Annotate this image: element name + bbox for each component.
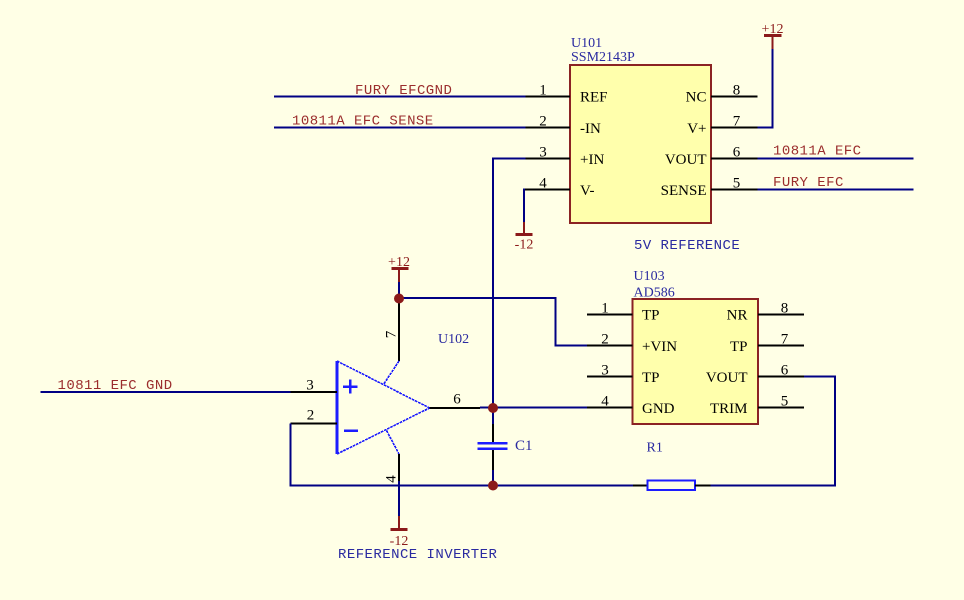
svg-text:6: 6	[733, 145, 741, 161]
wire net FURY EFCGND to U101 pin 1	[274, 96, 526, 98]
svg-text:C1: C1	[515, 438, 533, 454]
capacitor C1 bottom lead wire	[492, 470, 494, 486]
U103 pin 8 stub	[758, 314, 804, 316]
svg-text:5V REFERENCE: 5V REFERENCE	[634, 238, 740, 254]
capacitor C1 top lead wire	[492, 408, 494, 424]
svg-text:10811A EFC SENSE: 10811A EFC SENSE	[292, 114, 434, 130]
U101 pin 2 stub	[526, 127, 571, 129]
U103 body (AD586 reference)	[633, 299, 759, 424]
svg-text:4: 4	[539, 176, 547, 192]
svg-text:-12: -12	[515, 238, 534, 253]
U101 pin 7 stub	[711, 127, 758, 129]
power symbol +12 (above op-amp): bar	[392, 267, 409, 270]
op-amp U102 pin 4 lead-in segment	[387, 431, 400, 455]
svg-text:7: 7	[384, 330, 400, 338]
wire op-amp pin 4 down to -12	[398, 481, 400, 516]
svg-text:TP: TP	[730, 339, 748, 355]
svg-text:8: 8	[733, 83, 741, 99]
op-amp U102 triangle lower hypotenuse	[337, 408, 430, 454]
junction dot at +12 / op-amp pin 7	[394, 294, 404, 304]
wire U101 pin 3 to op-amp output (horizontal)	[492, 158, 526, 160]
U101 pin 3 stub	[526, 158, 571, 160]
svg-text:SENSE: SENSE	[661, 183, 707, 199]
U103 pin 5 stub	[758, 407, 804, 409]
op-amp U102 minus input marker	[344, 429, 358, 432]
svg-text:V-: V-	[580, 183, 594, 199]
U101 pin 1 stub	[526, 96, 571, 98]
wire +12 down to junction	[398, 282, 400, 298]
op-amp U102 triangle upper hypotenuse	[337, 361, 430, 408]
svg-text:8: 8	[781, 301, 789, 317]
power symbol -12 at U101 pin 4: stem	[523, 222, 525, 234]
U103 pin 4 stub	[587, 407, 633, 409]
svg-text:4: 4	[384, 475, 400, 483]
svg-text:TRIM: TRIM	[710, 401, 748, 417]
svg-text:3: 3	[306, 378, 314, 394]
power symbol +12 (top right): bar	[764, 34, 782, 37]
feedback wire from pin 2 down and right	[291, 424, 494, 486]
wire net 10811 EFC GND to op-amp pin 3	[41, 391, 291, 393]
svg-text:4: 4	[601, 394, 609, 410]
wire U101 pin 4 down to -12	[523, 189, 525, 223]
svg-text:1: 1	[601, 301, 609, 317]
svg-text:FURY EFC: FURY EFC	[773, 175, 844, 191]
svg-text:+12: +12	[388, 255, 410, 270]
power symbol -12 (below op-amp): stem	[398, 516, 400, 529]
svg-text:U103: U103	[634, 269, 665, 284]
svg-text:7: 7	[781, 332, 789, 348]
svg-text:2: 2	[539, 114, 547, 130]
wire R1 to U103 pin 6 (VOUT)	[711, 377, 836, 486]
resistor R1 body	[648, 481, 696, 491]
wire net FURY EFC from U101 pin 5	[758, 189, 914, 191]
svg-text:TP: TP	[642, 308, 660, 324]
op-amp U102 pin 7 lead-in segment	[384, 361, 400, 385]
svg-text:2: 2	[307, 408, 315, 424]
svg-text:5: 5	[733, 176, 741, 192]
svg-text:-IN: -IN	[580, 121, 601, 137]
svg-text:REFERENCE INVERTER: REFERENCE INVERTER	[338, 547, 497, 563]
svg-text:5: 5	[781, 394, 789, 410]
capacitor C1 plates	[478, 443, 508, 449]
U101 pin 8 stub	[711, 96, 758, 98]
svg-text:U101: U101	[571, 36, 602, 51]
U103 pin 7 stub	[758, 345, 804, 347]
op-amp U102 pin 7 stub (power)	[398, 298, 400, 361]
wire +12 down to U101 pin 7	[758, 49, 773, 128]
svg-text:2: 2	[601, 332, 609, 348]
svg-text:10811A EFC: 10811A EFC	[773, 144, 862, 160]
resistor R1 right lead	[695, 485, 711, 487]
svg-text:FURY EFCGND: FURY EFCGND	[355, 83, 452, 99]
svg-text:7: 7	[733, 114, 741, 130]
power symbol +12 (above op-amp): stem	[398, 269, 400, 282]
svg-text:3: 3	[539, 145, 547, 161]
wire op-amp output to U103 pin 4 (GND)	[480, 407, 587, 409]
wire feedback junction to R1	[493, 485, 633, 487]
power symbol -12 (below op-amp): bar	[391, 528, 408, 531]
U101 pin 4 stub	[524, 189, 570, 191]
junction dot at op-amp output	[488, 403, 498, 413]
svg-text:U102: U102	[438, 332, 469, 347]
op-amp U102 triangle left edge	[336, 361, 339, 454]
U101 pin 6 stub	[711, 158, 758, 160]
svg-text:NR: NR	[727, 308, 748, 324]
op-amp U102 pin 6 stub (output)	[430, 407, 481, 409]
wire net 10811A EFC from U101 pin 6	[758, 158, 914, 160]
svg-text:REF: REF	[580, 90, 608, 106]
op-amp U102 plus input marker	[343, 380, 358, 394]
wire net 10811A EFC SENSE to U101 pin 2	[274, 127, 526, 129]
op-amp U102 pin 4 stub (power)	[398, 454, 400, 481]
junction dot at C1 bottom / feedback	[488, 481, 498, 491]
U103 pin 2 stub	[587, 345, 633, 347]
U103 pin 1 stub	[587, 314, 633, 316]
op-amp U102 pin 2 stub (- input)	[291, 423, 338, 425]
svg-text:+VIN: +VIN	[642, 339, 677, 355]
op-amp U101 body (instrument amp SSM2143P)	[570, 65, 711, 223]
resistor R1 left lead	[633, 485, 648, 487]
svg-text:V+: V+	[687, 121, 706, 137]
svg-text:R1: R1	[647, 441, 663, 456]
svg-text:TP: TP	[642, 370, 660, 386]
svg-text:+12: +12	[762, 22, 784, 37]
svg-text:GND: GND	[642, 401, 675, 417]
wire U101 pin 3 vertical down	[492, 158, 494, 409]
capacitor C1 bottom lead pin	[492, 450, 494, 470]
svg-text:3: 3	[601, 363, 609, 379]
svg-text:6: 6	[453, 392, 461, 408]
svg-text:6: 6	[781, 363, 789, 379]
U101 pin 5 stub	[711, 189, 758, 191]
svg-text:VOUT: VOUT	[665, 152, 707, 168]
U103 pin 3 stub	[587, 376, 633, 378]
svg-text:NC: NC	[686, 90, 707, 106]
op-amp U102 pin 3 stub (+ input)	[291, 391, 338, 393]
power symbol -12 at U101 pin 4: bar	[516, 233, 533, 236]
svg-text:AD586: AD586	[634, 286, 675, 301]
svg-text:SSM2143P: SSM2143P	[571, 50, 635, 65]
power symbol +12 (top right): stem	[772, 36, 774, 49]
capacitor C1 top lead pin	[492, 424, 494, 442]
wire +12 junction to U103 pin 2 (+VIN)	[399, 298, 587, 346]
U103 pin 6 stub	[758, 376, 804, 378]
svg-text:1: 1	[539, 83, 547, 99]
svg-text:10811 EFC GND: 10811 EFC GND	[58, 378, 173, 394]
svg-text:VOUT: VOUT	[706, 370, 748, 386]
svg-text:+IN: +IN	[580, 152, 604, 168]
